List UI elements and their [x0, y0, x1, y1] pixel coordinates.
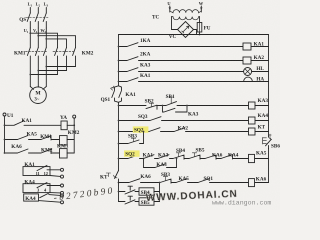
relay coil KA2	[243, 55, 269, 64]
contactor coil KM1	[57, 144, 74, 158]
rung KM2: contact KA5	[4, 132, 41, 141]
wire left rail bottom	[118, 183, 120, 202]
relay coil KA4	[249, 113, 269, 124]
rung KA5: limit switch SQ2 (highlighted)	[118, 150, 143, 159]
terminal (right of YA)	[73, 115, 76, 153]
wire top bus	[119, 34, 269, 36]
pushbutton SB4 (boxed) branch	[118, 182, 161, 202]
wire V1 drop	[37, 28, 39, 48]
contactor coil KM2	[60, 130, 80, 145]
relay coil KA1	[243, 42, 269, 50]
pushbutton SB3 branch	[118, 131, 145, 145]
transformer TC secondary winding	[172, 17, 200, 20]
junction dot W1 tap	[45, 38, 47, 40]
contactor KM2 linkage	[53, 51, 74, 53]
transformer TC primary winding	[170, 10, 202, 13]
rectifier VC	[169, 22, 197, 40]
limit switch SQ1	[198, 176, 249, 183]
pushbutton SB5 (NC)	[189, 147, 205, 159]
switch QS pole 2	[35, 13, 38, 28]
rung KM1: contact KA6	[4, 144, 41, 154]
node L3	[44, 2, 49, 8]
time relay coil KT	[249, 124, 269, 135]
wire KM2 crossover 2	[38, 70, 66, 72]
switch QS pole 1	[27, 13, 30, 28]
bell HA	[243, 77, 269, 83]
contactor KM2 main contacts	[55, 48, 58, 75]
pushbutton SB4 (NC)	[173, 148, 189, 159]
rung KA4: limit switch SQ3	[118, 114, 249, 121]
switch QS linkage	[26, 17, 48, 19]
contact KM1 (NC interlock)	[40, 134, 59, 140]
contact KA3	[158, 152, 173, 158]
wire secondary left to rectifier	[172, 17, 178, 30]
rung KA6: contact KA6	[118, 174, 152, 184]
rung KA3: wire from rail	[119, 105, 147, 107]
contact KA4	[221, 152, 249, 159]
pushbutton SB3	[152, 172, 176, 183]
contact KA5 self-hold branch	[144, 158, 178, 168]
emergency button SB6 (in right rail)	[263, 134, 281, 150]
lamp HL	[244, 66, 269, 75]
contact KA1 (bell rung)	[118, 73, 244, 83]
junction dot U1 tap	[29, 32, 31, 34]
contact block KA4 (terminals 3-4)	[23, 179, 64, 194]
terminal U1	[3, 113, 14, 153]
contact 2KA	[118, 51, 243, 61]
wire fuse to bus	[199, 32, 201, 35]
relay coil KA5	[249, 150, 269, 162]
contactor KM1 linkage	[26, 51, 48, 53]
wire KM2 crossover 1	[46, 66, 75, 68]
wire motor leads	[30, 87, 46, 90]
pushbutton SB5 (boxed) branch	[119, 196, 160, 206]
contact block KA4 (second)	[24, 193, 64, 204]
wire left rail upper	[118, 35, 120, 86]
wire L1 drop	[29, 8, 31, 14]
node L2	[36, 2, 41, 8]
wire KM2 feed from W1	[46, 39, 66, 48]
rung YA: contact KA1	[4, 118, 61, 126]
wire right rail lower	[268, 149, 270, 183]
contact KA1 (parallel with QS1)	[119, 86, 137, 103]
contact KA5	[176, 176, 198, 182]
wire W1 drop	[45, 28, 47, 48]
solenoid coil YA	[60, 115, 75, 130]
contact KA3	[118, 62, 244, 72]
contact KA6 (NC)	[205, 152, 223, 159]
contact KA3 self-hold branch	[162, 105, 199, 118]
wire secondary right to fuse	[199, 17, 201, 23]
switch QS pole 3	[43, 13, 46, 28]
transformer TC terminal U	[167, 1, 171, 12]
transformer TC terminal W	[199, 1, 204, 12]
contact 1KA	[118, 38, 243, 48]
contactor KM1 main contacts	[27, 48, 30, 87]
node L1	[28, 2, 33, 8]
time contact KT (in left rail)	[100, 171, 119, 183]
contact KA1	[143, 152, 158, 159]
fuse FU	[197, 23, 202, 33]
motor M	[30, 87, 47, 104]
contact KM2 (NC interlock)	[41, 148, 60, 154]
wire right rail upper	[268, 35, 270, 138]
relay coil KA6	[249, 176, 269, 186]
wire L2 drop	[37, 8, 39, 14]
wire KM2 feed from V1	[38, 36, 75, 48]
wire KM2 feed from U1	[30, 33, 57, 47]
wire left rail middle	[118, 102, 120, 170]
wire KM2 crossover 3	[30, 74, 57, 76]
pushbutton SB2 (NC stop)	[145, 99, 163, 110]
switch QS1 (in left rail)	[101, 86, 119, 103]
wire L3 drop	[45, 8, 47, 14]
junction dot V1 tap	[37, 35, 39, 37]
contact block KA1 (terminals 11-12)	[23, 162, 64, 178]
contact KA2	[174, 125, 249, 131]
pushbutton SB1 (NO start)	[163, 94, 249, 106]
wire U1 drop	[29, 28, 31, 48]
relay coil KA3	[249, 98, 269, 109]
rung KT: limit switch SQ2 (highlighted)	[118, 126, 174, 133]
